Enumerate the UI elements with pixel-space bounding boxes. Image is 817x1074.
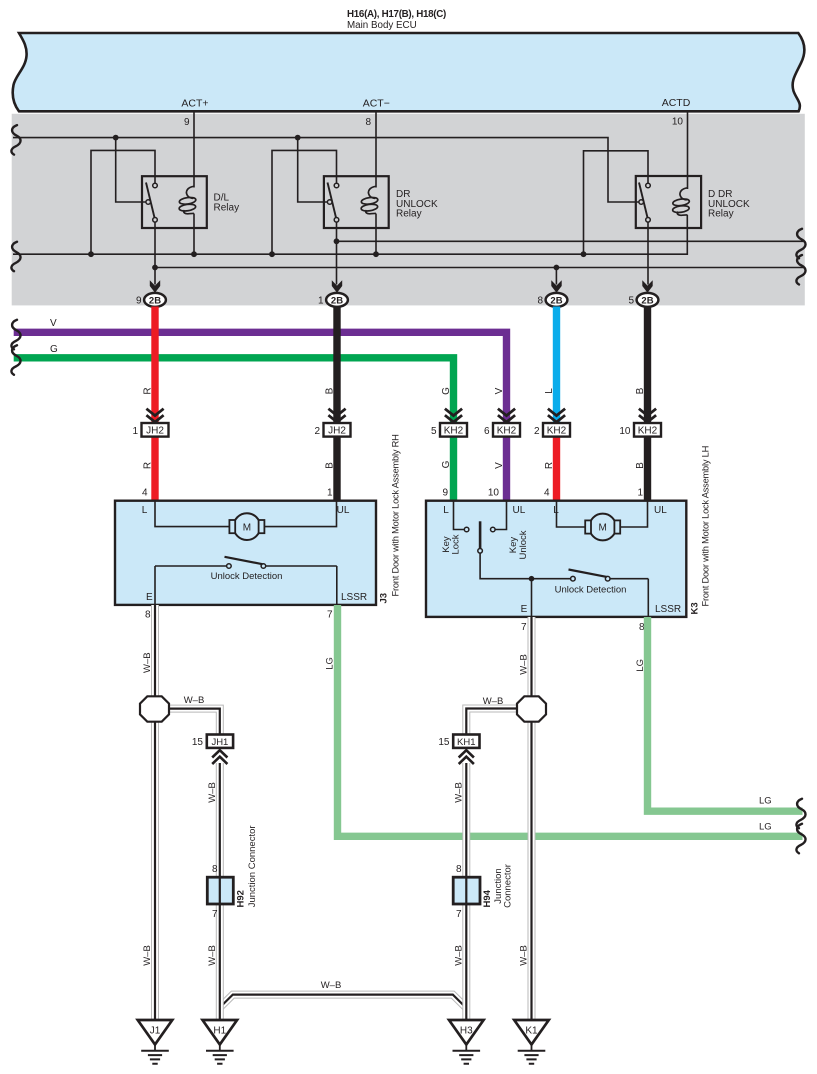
svg-text:W–B: W–B	[519, 654, 530, 675]
wire relay1 coil bottom	[193, 214, 195, 255]
RH terminal labels	[142, 505, 367, 603]
relay D/L label	[214, 193, 240, 214]
wire G green col3 lower	[450, 436, 457, 502]
relay D/L switch	[146, 183, 157, 223]
svg-text:R: R	[142, 462, 153, 469]
relay DR UNLOCK box	[324, 176, 389, 228]
relay DR UNLOCK coil	[361, 186, 379, 213]
connector 1 JH2	[132, 409, 168, 437]
wire relay1 contact to 2B	[154, 222, 156, 285]
wire W-B KH1 to ground H3	[462, 763, 470, 1019]
svg-text:M: M	[243, 522, 251, 533]
relay DR UNLOCK switch	[327, 183, 338, 223]
svg-text:H3: H3	[460, 1026, 473, 1037]
svg-text:W–B: W–B	[142, 945, 153, 966]
connector 1 2B oval	[326, 293, 348, 307]
label Junction Connector H94	[493, 864, 514, 908]
svg-text:W–B: W–B	[454, 782, 465, 803]
svg-text:KH1: KH1	[457, 737, 475, 748]
label Junction Connector H92	[247, 825, 258, 907]
connector 2 KH2	[534, 409, 570, 437]
bus wire from D/L relay contact	[155, 267, 803, 269]
svg-text:L: L	[544, 388, 555, 394]
svg-text:W–B: W–B	[321, 980, 342, 991]
junction dots gray band	[88, 135, 586, 271]
svg-text:JH2: JH2	[146, 426, 164, 437]
svg-text:8: 8	[365, 117, 371, 128]
continuation squiggle top bus left	[11, 125, 20, 155]
relay D DR UNLOCK label	[708, 189, 750, 220]
svg-text:W–B: W–B	[454, 945, 465, 966]
connector 5 KH2	[431, 409, 467, 437]
motor M LH	[585, 514, 620, 541]
svg-text:Front Door with Motor Lock Ass: Front Door with Motor Lock Assembly LH	[701, 446, 711, 607]
svg-text:W–B: W–B	[519, 945, 530, 966]
RH bottom pin numbers	[145, 610, 333, 621]
svg-text:V: V	[50, 318, 57, 329]
svg-text:Relay: Relay	[214, 202, 240, 213]
wire ACTD to relay coil	[687, 112, 689, 189]
svg-text:Unlock Detection: Unlock Detection	[211, 571, 283, 582]
svg-text:7: 7	[456, 909, 462, 920]
svg-text:7: 7	[212, 909, 218, 920]
svg-text:W–B: W–B	[207, 945, 218, 966]
wire W-B jumper H1 to H3	[220, 995, 466, 1008]
svg-text:JH2: JH2	[328, 426, 346, 437]
LH key contacts	[464, 527, 469, 532]
wire color labels row2	[142, 460, 646, 469]
wire G (green) horizontal from left	[14, 358, 454, 424]
wire B black col2 upper	[333, 307, 340, 425]
wire B black col6 lower	[644, 436, 651, 502]
continuation squiggle bottom bus left	[11, 242, 20, 271]
svg-text:10: 10	[488, 488, 500, 499]
svg-text:R: R	[544, 462, 555, 469]
wire relay3 contact to 2B	[647, 222, 649, 285]
ground H3	[449, 1020, 484, 1064]
ground J1	[138, 1020, 173, 1064]
wire relay1 top pin loop	[91, 150, 155, 254]
wire ACT+ to relay coil	[193, 112, 195, 188]
svg-text:8: 8	[537, 296, 543, 307]
svg-text:W–B: W–B	[142, 652, 153, 673]
svg-text:8: 8	[145, 610, 151, 621]
svg-text:UL: UL	[654, 505, 667, 516]
wire relay1 mid pin riser	[116, 138, 146, 202]
svg-text:LG: LG	[759, 822, 772, 833]
svg-text:V: V	[494, 462, 505, 469]
wire V violet col4 lower	[503, 436, 510, 502]
wire R red col1 lower	[151, 436, 158, 502]
svg-text:2B: 2B	[331, 295, 343, 306]
node E LH junction dot	[529, 576, 535, 582]
connector 6 KH2	[484, 409, 520, 437]
wire ACT- to relay coil	[375, 112, 377, 188]
svg-text:8: 8	[456, 864, 462, 875]
connector 9 2B arrow	[150, 280, 160, 293]
svg-text:G: G	[50, 344, 58, 355]
wire tap to 8-2B	[555, 268, 557, 285]
svg-text:ACT+: ACT+	[181, 98, 208, 110]
svg-text:J1: J1	[150, 1026, 161, 1037]
svg-text:2B: 2B	[550, 295, 562, 306]
wire W-B LH E to ground K1	[528, 617, 536, 1019]
svg-text:9: 9	[136, 296, 142, 307]
svg-text:V: V	[494, 387, 505, 394]
wire LG from LH LSSR	[648, 617, 803, 811]
connector 15 KH1	[438, 735, 479, 765]
LH key switch pole	[478, 521, 532, 578]
svg-text:1: 1	[132, 426, 138, 437]
connector 5 2B arrow	[642, 280, 652, 293]
svg-text:Unlock: Unlock	[518, 530, 529, 559]
svg-text:B: B	[324, 387, 335, 394]
svg-text:LG: LG	[759, 796, 772, 807]
svg-text:LG: LG	[325, 657, 336, 670]
junction connector H94	[453, 877, 480, 904]
wire LG from RH LSSR	[338, 605, 803, 836]
svg-text:R: R	[142, 387, 153, 394]
wire L light blue col5 upper	[553, 307, 560, 425]
svg-text:K1: K1	[525, 1026, 538, 1037]
svg-text:5: 5	[628, 296, 634, 307]
continuation squiggle right bus2	[796, 255, 805, 285]
svg-text:LSSR: LSSR	[341, 592, 367, 603]
ground K1	[514, 1020, 549, 1064]
motor M RH	[229, 513, 264, 540]
svg-text:K3: K3	[690, 602, 701, 614]
svg-text:8: 8	[212, 864, 218, 875]
relay D DR UNLOCK switch	[639, 183, 650, 223]
svg-text:W–B: W–B	[207, 782, 218, 803]
relay DR UNLOCK label	[396, 189, 438, 220]
junction octagon LH	[517, 696, 546, 721]
wire B black col2 lower	[333, 436, 340, 502]
LH E wire	[531, 579, 533, 617]
continuation squiggle LG lower right	[796, 824, 805, 854]
connector 10 KH2	[619, 409, 661, 437]
continuation squiggle right bus1	[796, 229, 805, 258]
wire stripe through H94	[465, 878, 467, 904]
connector 15 JH1	[192, 735, 233, 765]
LH LSSR wire	[647, 579, 649, 617]
wire relay2 contact to 2B	[336, 222, 338, 285]
svg-text:1: 1	[318, 296, 324, 307]
svg-text:2: 2	[314, 426, 320, 437]
Main Body ECU block (blue torn band)	[13, 33, 805, 111]
wire R red col5 lower	[553, 436, 560, 502]
svg-text:2B: 2B	[641, 295, 653, 306]
W-B labels	[142, 652, 530, 991]
relay D/L coil	[179, 186, 197, 213]
svg-text:KH2: KH2	[547, 426, 567, 437]
relay D DR UNLOCK coil	[672, 188, 690, 215]
svg-text:W–B: W–B	[483, 696, 504, 707]
wire relay2 top pin loop	[272, 150, 337, 254]
svg-text:UL: UL	[513, 505, 526, 516]
svg-text:W–B: W–B	[184, 695, 205, 706]
svg-text:Junction Connector: Junction Connector	[247, 825, 258, 907]
connector 9 2B oval	[144, 293, 166, 307]
svg-text:4: 4	[142, 488, 148, 499]
ground H1	[203, 1020, 238, 1064]
Front Door with Motor Lock Assembly LH box	[426, 501, 686, 617]
LH key lock contact wire	[454, 501, 465, 530]
svg-text:E: E	[521, 604, 528, 615]
connector 5 2B oval	[637, 293, 659, 307]
svg-text:7: 7	[521, 622, 527, 633]
svg-text:Front Door with Motor Lock Ass: Front Door with Motor Lock Assembly RH	[391, 434, 401, 596]
svg-text:Connector: Connector	[503, 864, 514, 908]
RH motor wires	[155, 501, 337, 527]
svg-text:6: 6	[484, 426, 490, 437]
wire R red col1 upper	[151, 307, 158, 425]
svg-text:E: E	[146, 592, 153, 603]
top bus wire	[13, 138, 639, 202]
continuation squiggle LG upper right	[796, 799, 805, 829]
wire relay2 coil bottom	[375, 214, 377, 255]
connector 8 2B arrow	[551, 280, 561, 293]
bottom bus wire	[13, 215, 687, 254]
svg-text:10: 10	[619, 426, 631, 437]
svg-text:B: B	[635, 462, 646, 469]
svg-text:B: B	[635, 387, 646, 394]
svg-text:J3: J3	[379, 593, 390, 604]
LH key unlock contact wire	[495, 501, 506, 530]
svg-text:Relay: Relay	[396, 209, 422, 220]
svg-text:KH2: KH2	[444, 426, 464, 437]
continuation squiggle V left	[11, 320, 20, 350]
svg-text:Main Body ECU: Main Body ECU	[347, 20, 417, 31]
svg-text:9: 9	[184, 117, 190, 128]
RH switch to E wire	[154, 566, 156, 605]
svg-text:Lock: Lock	[451, 534, 462, 554]
svg-text:ACTD: ACTD	[662, 97, 691, 109]
svg-text:H1: H1	[213, 1026, 226, 1037]
svg-text:KH2: KH2	[497, 426, 517, 437]
LH terminal labels	[443, 505, 681, 615]
gray relay block background	[12, 114, 805, 306]
RH unlock detection switch	[155, 557, 337, 569]
svg-text:10: 10	[672, 117, 684, 128]
svg-text:KH2: KH2	[638, 426, 658, 437]
wire relay2 mid pin riser	[298, 138, 329, 202]
svg-text:1: 1	[637, 488, 643, 499]
ECU header label	[347, 9, 446, 31]
svg-text:15: 15	[192, 737, 204, 748]
connector 1 2B arrow	[332, 280, 342, 293]
junction octagon RH	[140, 696, 169, 721]
assembly pin numbers	[142, 488, 644, 499]
svg-text:B: B	[324, 462, 335, 469]
svg-text:ACT−: ACT−	[363, 98, 390, 110]
svg-text:LSSR: LSSR	[655, 604, 681, 615]
continuation squiggle G left	[11, 345, 20, 375]
svg-text:M: M	[599, 523, 607, 534]
relay D/L box	[142, 176, 207, 228]
wire B black col6 upper	[644, 307, 651, 425]
wire W-B octagon branch to KH1	[466, 709, 519, 736]
connector 8 2B oval	[546, 293, 568, 307]
svg-text:H92: H92	[236, 890, 247, 907]
relay D DR UNLOCK box	[636, 176, 701, 228]
svg-text:Unlock Detection: Unlock Detection	[555, 584, 627, 595]
wire stripe through H92	[219, 878, 221, 904]
junction connector H92	[207, 877, 233, 904]
bus wire from DR UNLOCK relay contact	[337, 240, 804, 242]
svg-text:1: 1	[327, 488, 333, 499]
wire W-B JH1 to ground H1	[216, 763, 224, 1019]
wire W-B RH E to ground J1	[151, 605, 159, 1019]
svg-text:L: L	[142, 505, 148, 516]
label Key Unlock	[508, 530, 529, 559]
RH switch to LSSR wire	[336, 566, 338, 605]
wire color labels row1	[142, 387, 646, 395]
svg-text:5: 5	[431, 426, 437, 437]
LH motor wires	[557, 501, 648, 527]
svg-text:2: 2	[534, 426, 540, 437]
svg-text:15: 15	[438, 737, 450, 748]
LH unlock detection switch	[532, 570, 649, 582]
svg-text:G: G	[441, 460, 452, 468]
svg-text:UL: UL	[337, 505, 350, 516]
svg-text:H94: H94	[482, 889, 493, 907]
svg-text:4: 4	[544, 488, 550, 499]
svg-text:7: 7	[327, 610, 333, 621]
svg-text:H16(A), H17(B), H18(C): H16(A), H17(B), H18(C)	[347, 9, 446, 20]
svg-text:9: 9	[442, 488, 448, 499]
LH bottom pin numbers	[521, 622, 645, 633]
svg-text:LG: LG	[635, 659, 646, 672]
wire relay3 top pin loop	[584, 151, 649, 254]
wire W-B octagon branch to JH1	[167, 709, 220, 735]
connector 2 JH2	[314, 409, 350, 437]
svg-text:2B: 2B	[149, 295, 161, 306]
label Key Lock	[441, 534, 462, 554]
svg-text:G: G	[441, 387, 452, 395]
wire V (violet) horizontal from left	[14, 332, 507, 424]
svg-text:JH1: JH1	[211, 737, 228, 748]
svg-text:L: L	[443, 505, 449, 516]
Front Door with Motor Lock Assembly RH box	[115, 501, 376, 605]
svg-text:L: L	[553, 505, 559, 516]
svg-text:Relay: Relay	[708, 209, 734, 220]
